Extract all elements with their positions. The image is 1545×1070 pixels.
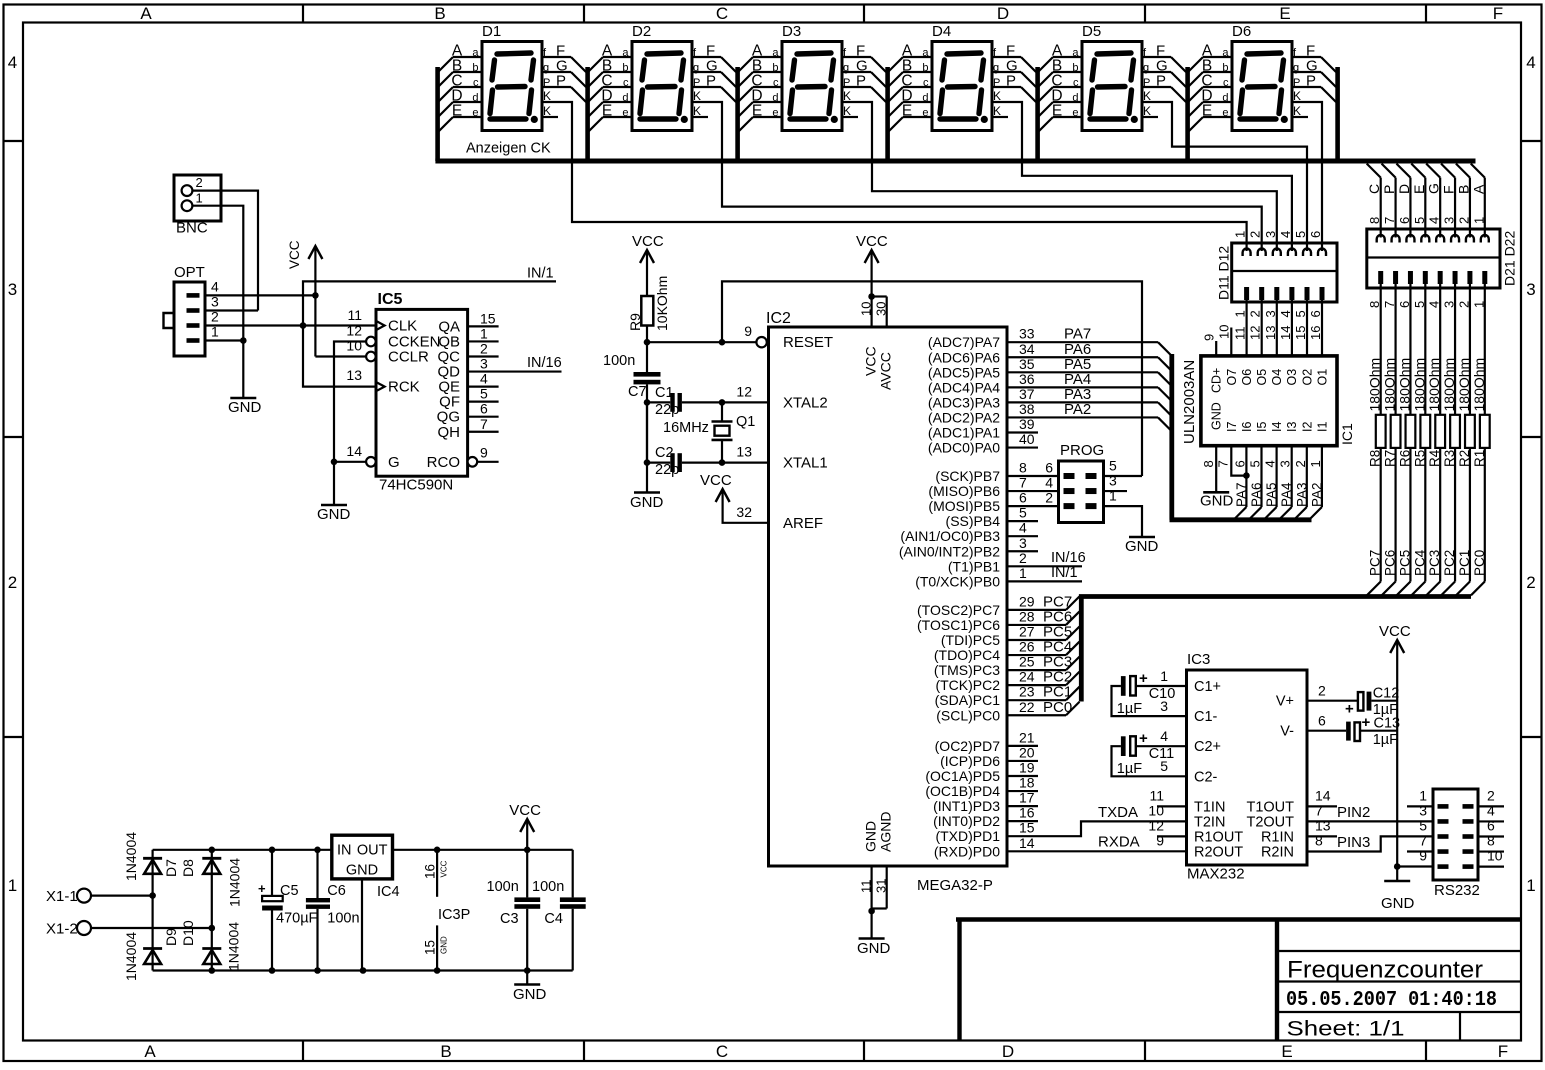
ULN2003 pin 9 CD+ stub xyxy=(1215,341,1217,356)
svg-text:D: D xyxy=(997,4,1009,23)
svg-text:40: 40 xyxy=(1019,431,1035,447)
svg-text:(INT0)PD2: (INT0)PD2 xyxy=(933,813,1000,829)
svg-text:16: 16 xyxy=(1019,805,1035,821)
svg-text:15: 15 xyxy=(480,310,496,326)
svg-text:(AIN1/OC0)PB3: (AIN1/OC0)PB3 xyxy=(900,528,1000,544)
diode D10 1N4004 xyxy=(202,947,221,950)
svg-text:(ADC7)PA7: (ADC7)PA7 xyxy=(928,334,1000,350)
svg-text:5: 5 xyxy=(480,386,488,402)
svg-text:C2+: C2+ xyxy=(1194,739,1221,755)
connector PROG programming header xyxy=(1059,461,1104,523)
connector D21 D22 resistor board header xyxy=(1367,229,1500,288)
svg-text:16MHz: 16MHz xyxy=(663,420,709,436)
svg-text:B: B xyxy=(1455,185,1471,194)
PROG pin 1 wire to GND xyxy=(1104,506,1143,537)
svg-text:5: 5 xyxy=(1412,301,1427,308)
svg-text:C: C xyxy=(716,4,728,23)
svg-text:2: 2 xyxy=(1456,217,1471,224)
svg-text:E: E xyxy=(452,103,462,120)
svg-text:2: 2 xyxy=(1019,550,1027,566)
net IN/1 wire from IC5 RCK and CLK xyxy=(303,281,556,386)
svg-text:C6: C6 xyxy=(327,883,346,899)
svg-text:1: 1 xyxy=(1308,460,1323,467)
svg-text:MAX232: MAX232 xyxy=(1187,866,1245,883)
ground symbol at PROG xyxy=(1129,536,1155,539)
svg-text:14: 14 xyxy=(346,443,362,459)
svg-text:I3: I3 xyxy=(1285,422,1299,432)
svg-text:5: 5 xyxy=(1293,231,1308,238)
svg-text:PC4: PC4 xyxy=(1412,549,1427,576)
svg-text:RS232: RS232 xyxy=(1434,882,1480,899)
svg-text:VCC: VCC xyxy=(856,233,888,250)
diode D7 1N4004 xyxy=(143,857,162,860)
svg-text:X1-1: X1-1 xyxy=(46,888,78,905)
svg-text:(MISO)PB6: (MISO)PB6 xyxy=(928,483,1000,499)
svg-text:PA2: PA2 xyxy=(1309,482,1324,507)
wire OPT pin1 to GND xyxy=(205,339,243,341)
svg-text:VCC: VCC xyxy=(700,472,732,489)
svg-text:180Ohm: 180Ohm xyxy=(1411,358,1427,412)
svg-text:e: e xyxy=(922,107,928,119)
svg-text:GND: GND xyxy=(1381,895,1415,912)
svg-text:5: 5 xyxy=(1160,758,1168,774)
svg-text:11: 11 xyxy=(858,880,873,894)
svg-text:3: 3 xyxy=(1263,310,1278,317)
svg-text:R2OUT: R2OUT xyxy=(1194,845,1243,861)
svg-text:8: 8 xyxy=(1367,301,1382,308)
svg-text:GND: GND xyxy=(440,936,449,954)
connector RS232 xyxy=(1433,789,1478,880)
svg-text:(SCK)PB7: (SCK)PB7 xyxy=(935,468,1000,484)
connector BNC xyxy=(174,175,221,221)
svg-text:5: 5 xyxy=(1419,818,1427,834)
RS232 right stubs pins 2 4 6 8 10 xyxy=(1478,805,1504,807)
ground symbol at C7 xyxy=(634,491,660,494)
svg-text:b: b xyxy=(1072,62,1078,74)
svg-text:PIN2: PIN2 xyxy=(1337,804,1370,821)
terminal X1-1 xyxy=(77,889,91,903)
svg-text:3: 3 xyxy=(1263,231,1278,238)
svg-text:7: 7 xyxy=(1019,475,1027,491)
svg-text:B: B xyxy=(440,1042,451,1061)
svg-text:IC2: IC2 xyxy=(766,310,791,327)
svg-text:G: G xyxy=(1426,183,1442,194)
svg-text:C1+: C1+ xyxy=(1194,679,1221,695)
svg-text:E: E xyxy=(1281,1042,1292,1061)
svg-text:1: 1 xyxy=(1019,565,1027,581)
svg-text:PA7: PA7 xyxy=(1234,482,1249,507)
supply top rail wire xyxy=(153,849,332,851)
svg-text:A: A xyxy=(144,1042,156,1061)
svg-text:(OC2)PD7: (OC2)PD7 xyxy=(935,738,1001,754)
svg-text:22: 22 xyxy=(1019,699,1035,715)
svg-text:E: E xyxy=(602,103,612,120)
svg-text:GND: GND xyxy=(513,986,547,1003)
svg-text:1µF: 1µF xyxy=(1117,761,1142,777)
svg-text:4: 4 xyxy=(1427,301,1442,308)
svg-text:12: 12 xyxy=(736,383,752,399)
svg-text:16: 16 xyxy=(423,864,438,879)
svg-text:16: 16 xyxy=(1308,326,1323,340)
svg-text:74HC590N: 74HC590N xyxy=(379,477,453,494)
svg-text:7: 7 xyxy=(1315,803,1323,819)
display anode bus horizontal xyxy=(435,159,1475,164)
svg-text:D3: D3 xyxy=(782,23,801,40)
svg-text:O7: O7 xyxy=(1225,369,1239,386)
svg-text:I1: I1 xyxy=(1315,422,1329,432)
display common anode bus vertical bars xyxy=(435,67,440,161)
svg-text:8: 8 xyxy=(1367,217,1382,224)
svg-text:3: 3 xyxy=(1526,280,1535,299)
svg-text:A: A xyxy=(1470,184,1486,194)
svg-text:180Ohm: 180Ohm xyxy=(1471,358,1487,412)
frame column ticks top xyxy=(302,5,304,23)
svg-text:100n: 100n xyxy=(603,353,635,369)
svg-text:32: 32 xyxy=(736,504,752,520)
svg-text:IN/16: IN/16 xyxy=(527,355,562,371)
svg-text:e: e xyxy=(1222,107,1228,119)
svg-text:8: 8 xyxy=(1315,833,1323,849)
terminal X1-2 xyxy=(77,921,91,935)
svg-text:C13: C13 xyxy=(1374,716,1401,732)
diode D9 1N4004 xyxy=(143,947,162,950)
svg-text:25: 25 xyxy=(1019,654,1035,670)
svg-text:(T1)PB1: (T1)PB1 xyxy=(948,558,1000,574)
svg-text:4: 4 xyxy=(1160,728,1168,744)
svg-text:10: 10 xyxy=(858,302,873,316)
svg-text:c: c xyxy=(1073,77,1079,89)
svg-text:1: 1 xyxy=(196,191,203,206)
RS232 pin 1 stub xyxy=(1407,805,1433,807)
svg-text:c: c xyxy=(623,77,629,89)
svg-text:21: 21 xyxy=(1019,729,1035,745)
svg-text:b: b xyxy=(1222,62,1228,74)
connector D11 D12 display board header xyxy=(1232,243,1337,302)
IC3 pin 14 T1OUT stub xyxy=(1307,805,1337,807)
svg-text:RCO: RCO xyxy=(427,454,460,471)
IC5 pin 12 CCKEN xyxy=(366,337,376,347)
svg-text:GND: GND xyxy=(863,821,879,852)
svg-text:(ADC6)PA6: (ADC6)PA6 xyxy=(928,349,1000,365)
svg-text:RXDA: RXDA xyxy=(1098,834,1140,851)
svg-text:2: 2 xyxy=(196,175,203,190)
svg-text:O6: O6 xyxy=(1240,369,1254,386)
svg-text:6: 6 xyxy=(1397,217,1412,224)
svg-text:P: P xyxy=(1306,73,1316,90)
display D5 anode input wires A-E xyxy=(1053,56,1082,58)
svg-text:1: 1 xyxy=(1526,876,1535,895)
svg-text:D1: D1 xyxy=(482,23,501,40)
svg-text:(ADC1)PA1: (ADC1)PA1 xyxy=(928,425,1000,441)
svg-text:E: E xyxy=(1279,4,1290,23)
svg-text:c: c xyxy=(923,77,929,89)
svg-text:B: B xyxy=(434,4,445,23)
svg-text:180Ohm: 180Ohm xyxy=(1382,358,1398,412)
svg-text:O1: O1 xyxy=(1315,369,1329,386)
capacitor C4 100n xyxy=(572,850,574,898)
IC5 pin 10 CCLR xyxy=(366,352,376,362)
svg-text:IN/16: IN/16 xyxy=(1051,550,1086,566)
svg-text:CLK: CLK xyxy=(388,318,417,335)
svg-text:38: 38 xyxy=(1019,401,1035,417)
svg-text:3: 3 xyxy=(480,356,488,372)
svg-text:31: 31 xyxy=(873,879,888,893)
svg-text:PC1: PC1 xyxy=(1457,550,1472,576)
wire BNC pin1 to GND node xyxy=(193,206,244,341)
net PIN2 wire T2OUT to RS232 xyxy=(1307,820,1433,822)
IC2 VCC AVCC top pins 10 30 xyxy=(865,250,879,263)
svg-text:1: 1 xyxy=(1109,488,1117,504)
wire OPT pin2 to IC5 CLK xyxy=(205,324,376,326)
svg-text:e: e xyxy=(472,107,478,119)
svg-text:I5: I5 xyxy=(1255,422,1269,432)
svg-text:GND: GND xyxy=(228,399,262,416)
svg-text:+: + xyxy=(1345,701,1354,718)
svg-text:11: 11 xyxy=(1233,327,1248,341)
svg-text:7: 7 xyxy=(1382,301,1397,308)
svg-text:V-: V- xyxy=(1280,724,1294,740)
capacitor C1 22p xyxy=(644,399,651,406)
svg-text:PA6: PA6 xyxy=(1249,482,1264,507)
ground symbol at IC5 G xyxy=(333,462,335,505)
svg-text:e: e xyxy=(772,107,778,119)
svg-text:I6: I6 xyxy=(1240,422,1254,432)
svg-text:PC0: PC0 xyxy=(1472,550,1487,576)
svg-text:6: 6 xyxy=(1487,818,1495,834)
svg-text:C: C xyxy=(716,1042,728,1061)
PROG pin 5 wire to RESET net xyxy=(1104,475,1143,477)
IC2 GND AGND bottom pins 11 31 xyxy=(870,866,872,911)
svg-text:d: d xyxy=(1222,92,1228,104)
svg-text:12: 12 xyxy=(1148,818,1164,834)
capacitor C5 470uF electrolytic xyxy=(271,850,273,896)
display D6 segment output wires F G P xyxy=(1292,56,1321,58)
svg-text:C1-: C1- xyxy=(1194,709,1218,725)
svg-text:4: 4 xyxy=(480,371,488,387)
svg-text:1: 1 xyxy=(1233,231,1248,238)
svg-text:(ADC0)PA0: (ADC0)PA0 xyxy=(928,440,1000,456)
svg-text:C12: C12 xyxy=(1373,686,1400,702)
svg-text:36: 36 xyxy=(1019,371,1035,387)
svg-text:470µF: 470µF xyxy=(276,911,318,927)
svg-text:3: 3 xyxy=(1278,460,1293,467)
svg-text:F: F xyxy=(1493,4,1503,23)
svg-text:d: d xyxy=(1072,92,1078,104)
svg-text:IN: IN xyxy=(337,843,352,859)
svg-text:ULN2003AN: ULN2003AN xyxy=(1181,360,1198,444)
bus PC0-PC7 to resistor network xyxy=(1079,597,1084,702)
bus PA2-PA7 to ULN2003 xyxy=(1169,354,1174,520)
svg-text:23: 23 xyxy=(1019,684,1035,700)
svg-text:(OC1A)PD5: (OC1A)PD5 xyxy=(925,768,1000,784)
svg-text:E: E xyxy=(752,103,762,120)
power VCC symbol near IC5 xyxy=(308,246,322,259)
svg-text:C4: C4 xyxy=(544,911,563,927)
svg-text:IC5: IC5 xyxy=(378,291,403,308)
svg-text:C3: C3 xyxy=(500,911,519,927)
svg-text:d: d xyxy=(472,92,478,104)
svg-text:4: 4 xyxy=(1278,231,1293,238)
svg-text:a: a xyxy=(922,47,929,59)
svg-text:11: 11 xyxy=(1149,788,1164,804)
svg-text:2: 2 xyxy=(1248,231,1263,238)
svg-text:PIN3: PIN3 xyxy=(1337,834,1370,851)
ground symbol at OPT pin1 xyxy=(242,341,244,399)
svg-text:T1OUT: T1OUT xyxy=(1246,799,1294,815)
svg-text:C: C xyxy=(1366,184,1382,194)
svg-text:P: P xyxy=(556,73,566,90)
svg-text:g: g xyxy=(693,62,699,74)
svg-text:RESET: RESET xyxy=(783,334,833,351)
svg-text:GND: GND xyxy=(1200,493,1234,510)
RS232 pin 9 wire to GND xyxy=(1397,865,1433,867)
svg-text:D5: D5 xyxy=(1082,23,1101,40)
svg-text:O2: O2 xyxy=(1300,369,1314,386)
ULN2003 pin 7 wire to PA7 xyxy=(1231,446,1246,476)
ULN2003 pin 8 GND wire xyxy=(1215,446,1217,493)
rectifier right branch wire xyxy=(211,850,213,971)
IC IC4 voltage regulator xyxy=(332,835,393,879)
svg-text:2: 2 xyxy=(480,341,488,357)
svg-text:5: 5 xyxy=(1019,505,1027,521)
svg-text:7: 7 xyxy=(1419,833,1427,849)
svg-text:IC4: IC4 xyxy=(377,884,400,900)
svg-text:a: a xyxy=(1222,47,1229,59)
svg-text:(TOSC2)PC7: (TOSC2)PC7 xyxy=(917,602,1000,618)
svg-text:P: P xyxy=(993,77,1000,89)
svg-text:+: + xyxy=(258,881,266,896)
capacitor C10 1uF xyxy=(1136,685,1187,687)
svg-text:26: 26 xyxy=(1019,639,1035,655)
svg-text:1: 1 xyxy=(1471,217,1486,224)
svg-text:T1IN: T1IN xyxy=(1194,799,1225,815)
svg-text:AGND: AGND xyxy=(878,812,894,852)
svg-text:P: P xyxy=(1156,73,1166,90)
svg-text:P: P xyxy=(1293,77,1300,89)
svg-text:GND: GND xyxy=(346,863,378,879)
display D4 anode input wires A-E xyxy=(903,56,932,58)
svg-text:(ADC3)PA3: (ADC3)PA3 xyxy=(928,394,1000,410)
frame row ticks left xyxy=(4,140,24,142)
svg-text:(TXD)PD1: (TXD)PD1 xyxy=(935,828,1000,844)
svg-text:I4: I4 xyxy=(1270,422,1284,432)
svg-text:1µF: 1µF xyxy=(1373,732,1398,748)
svg-text:34: 34 xyxy=(1019,341,1035,357)
display D4 segment output wires F G P xyxy=(992,56,1021,58)
svg-text:g: g xyxy=(1143,62,1149,74)
svg-text:CCLR: CCLR xyxy=(388,349,429,366)
IC IC1 ULN2003AN body xyxy=(1201,356,1337,446)
svg-text:2: 2 xyxy=(1318,683,1326,699)
svg-text:R9: R9 xyxy=(627,313,643,331)
svg-text:g: g xyxy=(1293,62,1299,74)
svg-text:A: A xyxy=(140,4,152,23)
display D6 anode input wires A-E xyxy=(1203,56,1232,58)
svg-text:+: + xyxy=(1139,730,1148,747)
IC3P power part pin 16 VCC xyxy=(436,850,438,897)
svg-text:(ICP)PD6: (ICP)PD6 xyxy=(940,753,1000,769)
wires D21 to resistors R8-R1 xyxy=(1380,283,1382,415)
svg-text:2: 2 xyxy=(1456,301,1471,308)
ground symbol at ULN2003 xyxy=(1203,491,1229,494)
capacitor C2 22p xyxy=(644,459,651,466)
svg-text:XTAL1: XTAL1 xyxy=(783,455,828,472)
svg-text:19: 19 xyxy=(1019,760,1035,776)
svg-text:(MOSI)PB5: (MOSI)PB5 xyxy=(928,498,1000,514)
rectifier left branch wire xyxy=(152,850,154,971)
svg-text:1: 1 xyxy=(1419,788,1427,804)
svg-text:100n: 100n xyxy=(327,911,359,927)
svg-text:30: 30 xyxy=(873,302,888,316)
IC IC2 MEGA32-P microcontroller body xyxy=(769,327,1008,866)
IC5 pin 13 RCK xyxy=(376,382,385,391)
svg-text:9: 9 xyxy=(1202,334,1217,341)
svg-text:+: + xyxy=(1139,670,1148,687)
svg-text:100n: 100n xyxy=(487,879,519,895)
svg-text:D9: D9 xyxy=(163,928,179,946)
svg-text:5: 5 xyxy=(1412,217,1427,224)
svg-text:a: a xyxy=(472,47,479,59)
svg-text:D4: D4 xyxy=(932,23,951,40)
svg-text:P: P xyxy=(1143,77,1150,89)
svg-text:VCC: VCC xyxy=(509,802,541,819)
svg-text:V+: V+ xyxy=(1276,694,1294,710)
svg-text:BNC: BNC xyxy=(176,220,208,237)
svg-text:5: 5 xyxy=(1293,310,1308,317)
wire RESET net R9 to IC2 xyxy=(644,339,651,346)
svg-text:28: 28 xyxy=(1019,608,1035,624)
svg-text:(INT1)PD3: (INT1)PD3 xyxy=(933,798,1000,814)
svg-text:1N4004: 1N4004 xyxy=(227,858,243,907)
capacitor C12 1uF at V+ xyxy=(1307,700,1358,702)
svg-text:PC3: PC3 xyxy=(1427,550,1442,576)
svg-text:14: 14 xyxy=(1278,326,1293,340)
svg-text:4: 4 xyxy=(1278,310,1293,317)
svg-text:10: 10 xyxy=(1217,325,1232,339)
svg-text:(RXD)PD0: (RXD)PD0 xyxy=(934,843,1000,859)
svg-text:7: 7 xyxy=(1382,217,1397,224)
svg-text:C2: C2 xyxy=(655,445,674,461)
svg-text:180Ohm: 180Ohm xyxy=(1367,358,1383,412)
capacitor C6 100n xyxy=(316,850,318,898)
svg-text:3: 3 xyxy=(1442,301,1457,308)
svg-text:13: 13 xyxy=(1315,818,1331,834)
svg-text:D2: D2 xyxy=(632,23,651,40)
svg-text:E: E xyxy=(1052,103,1062,120)
svg-text:6: 6 xyxy=(480,401,488,417)
svg-text:4: 4 xyxy=(8,53,17,72)
IC5 pin 11 CLK xyxy=(376,321,385,330)
capacitor C13 1uF at V- xyxy=(1307,730,1346,732)
wire RESET to PROG pin5 xyxy=(722,281,1142,476)
svg-text:T2OUT: T2OUT xyxy=(1246,814,1294,830)
svg-text:5: 5 xyxy=(1109,458,1117,474)
svg-text:11: 11 xyxy=(347,307,362,323)
svg-text:6: 6 xyxy=(1308,231,1323,238)
frame row ticks right xyxy=(1521,140,1542,142)
ULN2003 pins 6-1 wires to PA bus xyxy=(1245,446,1247,507)
resistors R8-R1 180Ohm xyxy=(1376,415,1386,448)
svg-text:E: E xyxy=(902,103,912,120)
svg-text:GND: GND xyxy=(630,494,664,511)
segment net wires bus to D22 xyxy=(1367,164,1381,178)
svg-text:MEGA32-P: MEGA32-P xyxy=(917,877,993,894)
net RXDA wire PD0 to MAX232 R2OUT xyxy=(1007,850,1187,852)
svg-text:1: 1 xyxy=(1471,301,1486,308)
svg-text:1N4004: 1N4004 xyxy=(123,832,139,881)
frame column ticks bottom xyxy=(302,1041,304,1062)
svg-text:2: 2 xyxy=(1293,460,1308,467)
